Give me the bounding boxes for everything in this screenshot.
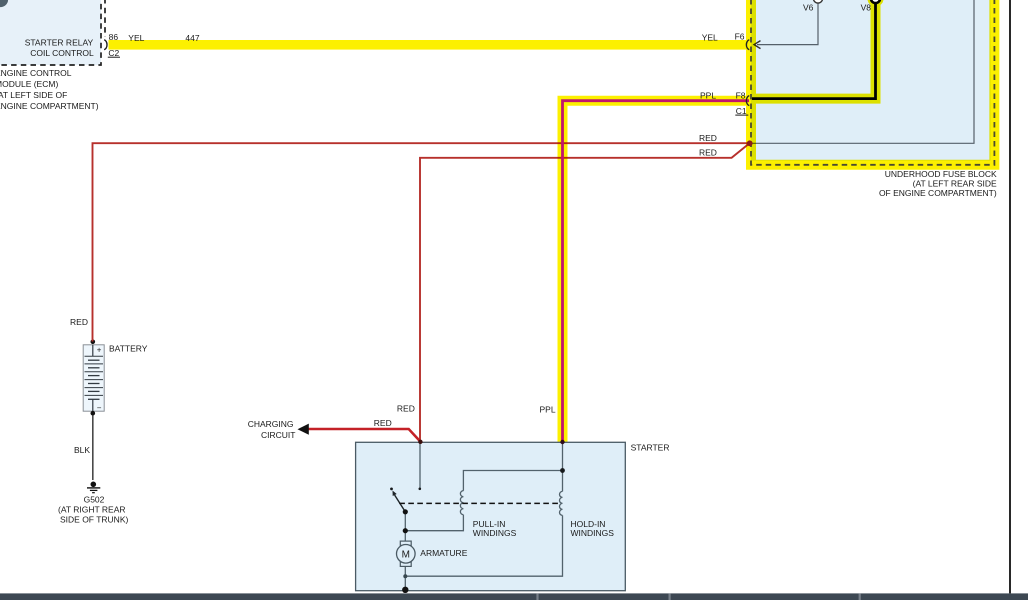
svg-text:CHARGING: CHARGING xyxy=(248,419,294,429)
svg-text:C1: C1 xyxy=(736,106,747,116)
svg-text:(AT RIGHT REAR: (AT RIGHT REAR xyxy=(58,505,126,515)
svg-text:UNDERHOOD FUSE BLOCK: UNDERHOOD FUSE BLOCK xyxy=(885,169,997,179)
svg-text:OF ENGINE COMPARTMENT): OF ENGINE COMPARTMENT) xyxy=(879,188,997,198)
svg-text:V8: V8 xyxy=(861,2,872,12)
svg-text:BATTERY: BATTERY xyxy=(109,344,148,354)
svg-text:V6: V6 xyxy=(803,2,814,12)
svg-text:F8: F8 xyxy=(736,91,746,101)
svg-text:−: − xyxy=(97,403,102,412)
svg-text:MODULE (ECM): MODULE (ECM) xyxy=(0,79,58,89)
svg-text:RED: RED xyxy=(397,404,415,414)
svg-text:YEL: YEL xyxy=(128,33,144,43)
svg-text:WINDINGS: WINDINGS xyxy=(473,528,517,538)
svg-text:RED: RED xyxy=(374,418,392,428)
svg-text:RED: RED xyxy=(699,133,717,143)
svg-text:86: 86 xyxy=(109,32,119,42)
svg-text:ARMATURE: ARMATURE xyxy=(420,548,467,558)
svg-text:PPL: PPL xyxy=(540,405,556,415)
svg-text:RED: RED xyxy=(70,317,88,327)
svg-text:(AT LEFT SIDE OF: (AT LEFT SIDE OF xyxy=(0,90,67,100)
svg-text:ENGINE CONTROL: ENGINE CONTROL xyxy=(0,68,72,78)
svg-text:CIRCUIT: CIRCUIT xyxy=(261,430,295,440)
svg-text:BLK: BLK xyxy=(74,445,90,455)
svg-text:+: + xyxy=(97,346,102,355)
svg-text:ENGINE COMPARTMENT): ENGINE COMPARTMENT) xyxy=(0,101,99,111)
svg-text:F6: F6 xyxy=(735,32,745,42)
svg-text:WINDINGS: WINDINGS xyxy=(571,528,615,538)
svg-text:STARTER: STARTER xyxy=(631,443,670,453)
svg-text:COIL CONTROL: COIL CONTROL xyxy=(30,48,94,58)
svg-text:C2: C2 xyxy=(108,48,119,58)
svg-text:YEL: YEL xyxy=(702,32,718,42)
svg-text:G502: G502 xyxy=(84,494,105,504)
svg-text:STARTER RELAY: STARTER RELAY xyxy=(25,38,94,48)
svg-text:447: 447 xyxy=(185,33,199,43)
svg-text:SIDE OF TRUNK): SIDE OF TRUNK) xyxy=(60,515,128,525)
svg-text:RED: RED xyxy=(699,147,717,157)
svg-text:PPL: PPL xyxy=(700,90,716,100)
svg-text:M: M xyxy=(402,549,410,560)
